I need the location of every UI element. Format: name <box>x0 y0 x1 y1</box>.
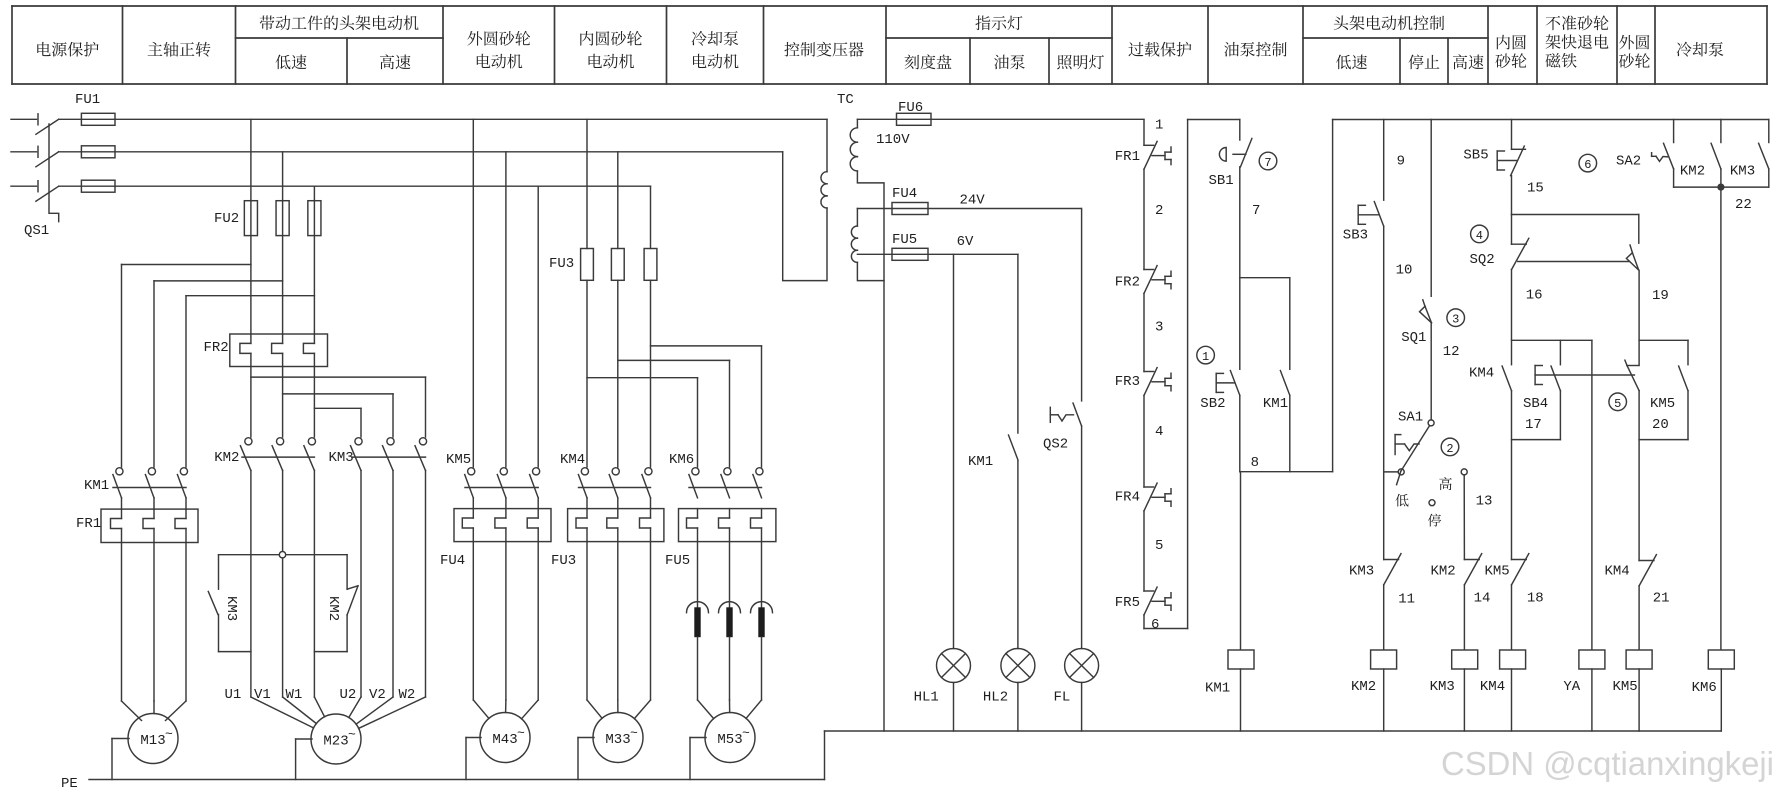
wire KM5 taps <box>473 119 538 467</box>
fuse FU6 <box>897 113 932 125</box>
node wire 4 <box>1155 424 1163 440</box>
svg-text:16: 16 <box>1526 288 1543 304</box>
label FU4c <box>892 186 917 202</box>
node wire 10 label <box>1396 263 1413 279</box>
wire KM1 aux branch <box>1240 278 1290 370</box>
svg-text:TC: TC <box>837 92 854 108</box>
contact KM3 coolant <box>1759 120 1769 188</box>
svg-text:4: 4 <box>1476 229 1483 243</box>
svg-text:SB3: SB3 <box>1343 228 1368 244</box>
wire KM2 coil to bus <box>1383 669 1385 731</box>
contact KM5 holding <box>1639 340 1688 439</box>
node wire 12 label <box>1443 344 1460 360</box>
svg-text:HL2: HL2 <box>983 690 1008 706</box>
svg-text:KM4: KM4 <box>1480 679 1505 695</box>
svg-text:KM5: KM5 <box>1485 564 1510 580</box>
thermal contact FR5 <box>1144 587 1171 615</box>
svg-text:KM1: KM1 <box>968 454 993 470</box>
label high <box>1439 477 1452 490</box>
wire 110V line <box>857 118 1144 120</box>
contactor KM6 main contacts <box>689 468 763 498</box>
limit switch SQ2 nc <box>1512 215 1529 270</box>
fuse FU4c <box>892 203 928 215</box>
svg-text:7: 7 <box>1252 203 1260 219</box>
node wire 21 label <box>1653 591 1670 607</box>
node wire 3 <box>1155 320 1163 336</box>
label KM3 coil <box>1430 679 1455 695</box>
svg-text:KM5: KM5 <box>1650 396 1675 412</box>
svg-text:20: 20 <box>1652 417 1669 433</box>
annotation circle 4 <box>1471 225 1489 243</box>
label FR1 <box>76 516 101 532</box>
svg-text:FR3: FR3 <box>1115 374 1140 390</box>
svg-text:14: 14 <box>1474 591 1491 607</box>
label 110V <box>876 132 910 148</box>
node wire 1 <box>1155 118 1163 134</box>
wire FU2 taps <box>251 119 315 334</box>
motor M3 <box>480 713 530 763</box>
node wire 15 label <box>1527 181 1544 197</box>
label SA2 <box>1616 154 1641 170</box>
thermal contact FR1 <box>1144 141 1171 169</box>
lamp HL2 <box>1001 649 1035 683</box>
svg-text:KM1: KM1 <box>84 478 109 494</box>
contactor KM1 main contacts <box>113 468 188 498</box>
transformer TC primary <box>783 119 827 280</box>
svg-text:SB2: SB2 <box>1200 396 1225 412</box>
label KM5 <box>446 452 471 468</box>
pushbutton SB3 <box>1358 202 1384 227</box>
svg-text:1: 1 <box>1202 350 1209 364</box>
wire 24V line <box>857 208 1081 210</box>
svg-text:10: 10 <box>1396 263 1413 279</box>
svg-text:V1: V1 <box>254 687 271 703</box>
label FU4 <box>440 553 465 569</box>
svg-text:HL1: HL1 <box>914 690 939 706</box>
svg-text:FR1: FR1 <box>76 516 101 532</box>
wire 9 <box>1383 120 1385 201</box>
svg-text:FR2: FR2 <box>1115 275 1140 291</box>
svg-text:KM3: KM3 <box>329 450 354 466</box>
annotation circle 7 <box>1259 152 1277 170</box>
node wire 19 label <box>1652 288 1669 304</box>
limit switch SQ2 no <box>1626 215 1638 271</box>
svg-text:6V: 6V <box>957 234 974 250</box>
wire KM1 coil lead <box>1240 472 1242 650</box>
svg-text:KM3: KM3 <box>223 596 239 621</box>
coil KM2 <box>1371 650 1397 669</box>
svg-text:FU5: FU5 <box>665 553 690 569</box>
wire L1 bus <box>115 118 827 120</box>
label FR3 <box>1115 374 1140 390</box>
svg-text:CSDN @cqtianxingkeji: CSDN @cqtianxingkeji <box>1441 745 1774 782</box>
svg-text:U2: U2 <box>340 687 357 703</box>
fuse FU1 <box>59 113 115 192</box>
motor M5 <box>705 713 755 763</box>
wire PE stub <box>296 739 312 780</box>
label KM6 <box>669 452 694 468</box>
node wire 5 <box>1155 538 1163 554</box>
label 24V <box>960 193 986 209</box>
node wire 7 <box>1252 203 1260 219</box>
contact KM4 interlock <box>1639 555 1656 586</box>
svg-text:QS2: QS2 <box>1043 437 1068 453</box>
label KM4 <box>560 452 585 468</box>
wire lamp bottoms <box>954 683 1082 732</box>
coil KM6 <box>1708 650 1734 669</box>
contact KM4 holding <box>1502 366 1511 391</box>
wire PE stub <box>578 738 594 780</box>
label SB4 <box>1523 396 1548 412</box>
wire KM5 coil to bus <box>1638 669 1640 731</box>
contact KM3 interlock <box>1384 554 1401 585</box>
svg-text:FU3: FU3 <box>551 553 576 569</box>
node wire 14 label <box>1474 591 1491 607</box>
svg-text:KM2: KM2 <box>1351 679 1376 695</box>
svg-text:~: ~ <box>165 727 173 742</box>
wire 20 <box>1638 391 1640 561</box>
label KM3 interlock <box>1349 564 1374 580</box>
wire 13 <box>1463 475 1465 560</box>
svg-text:SB1: SB1 <box>1209 173 1234 189</box>
svg-text:M23: M23 <box>323 734 348 750</box>
motor M2 <box>311 714 361 764</box>
wire SQ2 link <box>1518 261 1630 263</box>
svg-text:KM4: KM4 <box>1605 564 1630 580</box>
svg-text:YA: YA <box>1563 679 1580 695</box>
heater elements M5 <box>687 542 773 719</box>
svg-text:KM2: KM2 <box>1680 164 1705 180</box>
label SQ2 <box>1470 252 1495 268</box>
fuse FU5c <box>892 248 928 260</box>
svg-text:SA1: SA1 <box>1398 410 1423 426</box>
switch QS2 <box>1050 403 1081 426</box>
svg-text:12: 12 <box>1443 344 1460 360</box>
disconnect switch QS1 <box>11 114 59 222</box>
svg-text:SA2: SA2 <box>1616 154 1641 170</box>
svg-text:W1: W1 <box>286 687 303 703</box>
svg-text:FR1: FR1 <box>1115 149 1140 165</box>
annotation circle 1 <box>1197 346 1215 364</box>
label PE <box>61 776 78 792</box>
wire star bridge <box>219 552 348 558</box>
label KM3 vertical <box>223 596 239 621</box>
contactor KM4 main contacts <box>578 468 652 498</box>
wire KM2 KM3 branches <box>251 367 426 438</box>
svg-text:SQ1: SQ1 <box>1401 330 1426 346</box>
label FU5b <box>665 553 690 569</box>
contact KM1 aux <box>1280 371 1289 396</box>
motor M4 <box>593 713 643 763</box>
svg-text:6: 6 <box>1151 617 1159 633</box>
wire M3 motor leads <box>473 498 538 719</box>
thermal relay FR1 <box>101 509 198 542</box>
wire 16 <box>1512 270 1592 365</box>
wire 12 rail top <box>1430 120 1432 297</box>
svg-text:M43: M43 <box>492 732 517 748</box>
svg-text:KM1: KM1 <box>1263 396 1288 412</box>
contactor KM2 delta contact <box>314 555 358 652</box>
wire L3 bus <box>115 185 651 187</box>
label KM1 coil <box>1205 681 1230 697</box>
table header text <box>37 15 1723 69</box>
label FR4 <box>1115 490 1140 506</box>
svg-text:KM5: KM5 <box>1613 679 1638 695</box>
label SB3 <box>1343 228 1368 244</box>
node wire 16 label <box>1526 288 1543 304</box>
svg-text:3: 3 <box>1452 313 1459 327</box>
wire SB1 to SB2 <box>1239 167 1241 369</box>
svg-text:V2: V2 <box>369 687 386 703</box>
wire 17 <box>1511 391 1513 560</box>
wire bus segment 2 <box>1188 120 1240 629</box>
label SB5 <box>1463 148 1488 164</box>
label KM5 holding <box>1650 396 1675 412</box>
svg-text:QS1: QS1 <box>24 223 49 239</box>
label KM5 interlock <box>1485 564 1510 580</box>
svg-text:5: 5 <box>1155 538 1163 554</box>
svg-text:21: 21 <box>1653 591 1670 607</box>
wire 15 rail top <box>1511 120 1513 150</box>
transformer TC secondary 110V <box>850 119 884 731</box>
wire 15 <box>1512 176 1639 215</box>
label TC <box>837 92 854 108</box>
svg-text:FU3: FU3 <box>549 256 574 272</box>
svg-text:~: ~ <box>742 726 750 741</box>
fuse box FU5b <box>679 509 776 542</box>
contact KM2 coolant <box>1711 120 1721 188</box>
node wire 11 label <box>1398 592 1415 608</box>
wire 12 <box>1430 323 1432 420</box>
label KM5 coil <box>1613 679 1638 695</box>
watermark <box>1441 745 1774 782</box>
wire M4 motor leads <box>587 498 651 719</box>
label KM1 aux <box>1263 396 1288 412</box>
svg-text:110V: 110V <box>876 132 910 148</box>
node wire 18 label <box>1527 591 1544 607</box>
wire bus segment 3 <box>1333 120 1769 472</box>
label QS1 <box>24 223 49 239</box>
fuse FU2 <box>244 201 321 236</box>
svg-text:M13: M13 <box>140 733 165 749</box>
svg-text:4: 4 <box>1155 424 1163 440</box>
svg-text:11: 11 <box>1398 592 1415 608</box>
annotation circle 2 <box>1441 438 1459 456</box>
wire M1 motor leads <box>122 498 187 721</box>
fuse box FU3b <box>568 509 664 542</box>
wire FL branch <box>1081 209 1083 649</box>
lamp FL <box>1065 649 1099 683</box>
label QS2 <box>1043 437 1068 453</box>
coil KM3 <box>1452 650 1478 669</box>
svg-text:U1: U1 <box>225 687 242 703</box>
limit switch SQ1 <box>1420 300 1432 323</box>
label FU5c <box>892 232 917 248</box>
lamp HL1 <box>937 649 971 683</box>
wire M2 motor leads <box>251 471 426 729</box>
node wire 2 <box>1155 203 1163 219</box>
node wire 13 label <box>1476 494 1493 510</box>
wire KM5 coil lead <box>1638 586 1640 650</box>
label KM2 vertical <box>325 596 341 621</box>
label FU3 <box>549 256 574 272</box>
coil YA <box>1579 650 1605 669</box>
wire KM4 coil to bus <box>1511 669 1513 731</box>
svg-text:FU1: FU1 <box>75 92 100 108</box>
svg-text:~: ~ <box>630 726 638 741</box>
label FR1 <box>1115 149 1140 165</box>
wire L2 bus <box>115 151 783 153</box>
contact KM1 aux lamp <box>1009 435 1018 460</box>
svg-text:2: 2 <box>1446 442 1453 456</box>
label KM1 lamp <box>968 454 993 470</box>
contact KM2 interlock <box>1464 554 1481 585</box>
node wire 9 label <box>1397 154 1405 170</box>
annotation circle 6 <box>1579 154 1597 172</box>
svg-text:22: 22 <box>1735 197 1752 213</box>
svg-text:2: 2 <box>1155 203 1163 219</box>
wire 19 <box>1639 270 1688 364</box>
wire KM1 coil to bus <box>1240 669 1242 731</box>
thermal contact FR3 <box>1144 368 1171 396</box>
svg-text:FU5: FU5 <box>892 232 917 248</box>
svg-text:KM6: KM6 <box>1692 680 1717 696</box>
contactor KM3 star contact <box>208 555 251 652</box>
label FR2 <box>204 340 229 356</box>
label SQ1 <box>1401 330 1426 346</box>
svg-text:15: 15 <box>1527 181 1544 197</box>
label SB1 <box>1209 173 1234 189</box>
label KM6 coil <box>1692 680 1717 696</box>
label low <box>1395 494 1408 507</box>
label KM2 coil <box>1351 679 1376 695</box>
node wire 17 label <box>1525 417 1542 433</box>
annotation circle 5 <box>1609 393 1627 411</box>
node wire 6 <box>1151 617 1159 633</box>
svg-text:KM4: KM4 <box>560 452 585 468</box>
label 6V <box>957 234 974 250</box>
svg-text:KM2: KM2 <box>214 450 239 466</box>
wire 6V line <box>857 253 1018 255</box>
label FL <box>1054 690 1071 706</box>
svg-text:6: 6 <box>1584 158 1591 172</box>
svg-text:FU4: FU4 <box>892 186 917 202</box>
pushbutton SB1 <box>1219 120 1252 167</box>
svg-text:W2: W2 <box>399 687 416 703</box>
thermal contact FR2 <box>1144 266 1171 294</box>
label FU2 <box>214 211 239 227</box>
label KM4 coil <box>1480 679 1505 695</box>
wire HL1 branch <box>953 254 955 648</box>
wire KM4 taps <box>587 280 651 467</box>
svg-text:FU6: FU6 <box>898 100 923 116</box>
wire 22 <box>1674 184 1769 651</box>
label SA1 <box>1398 410 1423 426</box>
svg-text:FR5: FR5 <box>1115 595 1140 611</box>
svg-text:5: 5 <box>1614 397 1621 411</box>
contactor KM5 main contacts <box>465 468 540 498</box>
wire KM3 coil lead <box>1463 585 1465 650</box>
svg-text:SB5: SB5 <box>1463 148 1488 164</box>
svg-text:1: 1 <box>1155 118 1163 134</box>
transformer TC secondary 24V 6V <box>851 209 884 281</box>
label FU1 <box>75 92 100 108</box>
svg-text:FL: FL <box>1054 690 1071 706</box>
wire low link <box>1384 471 1399 473</box>
pushbutton SB5 <box>1497 146 1525 176</box>
label FU6 <box>898 100 923 116</box>
wire KM4 coil lead <box>1511 585 1513 650</box>
svg-text:PE: PE <box>61 776 78 792</box>
svg-text:FR4: FR4 <box>1115 490 1140 506</box>
selector switch SA1 <box>1395 420 1467 506</box>
wire 10 <box>1383 226 1385 559</box>
label FR2 <box>1115 275 1140 291</box>
svg-text:~: ~ <box>517 726 525 741</box>
label stop <box>1428 514 1441 527</box>
svg-text:13: 13 <box>1476 494 1493 510</box>
node wire 22 label <box>1735 197 1752 213</box>
pushbutton SB4 <box>1512 340 1635 439</box>
wire YA lead <box>1591 340 1593 650</box>
coil KM5 <box>1626 650 1652 669</box>
label KM4 holding <box>1469 366 1494 382</box>
svg-text:KM3: KM3 <box>1349 564 1374 580</box>
label KM3 <box>329 450 354 466</box>
wire PE stub <box>112 739 129 780</box>
wire KM6 taps <box>587 346 762 467</box>
svg-text:KM1: KM1 <box>1205 681 1230 697</box>
annotation circle 3 <box>1447 309 1465 327</box>
svg-text:KM3: KM3 <box>1430 679 1455 695</box>
wire KM2 coil lead <box>1383 585 1385 650</box>
contactor KM3 main contacts <box>351 438 427 471</box>
contactor KM2 main contacts <box>240 438 315 471</box>
thermal relay FR2 <box>230 334 328 367</box>
wire 8 <box>1240 395 1333 471</box>
svg-text:SB4: SB4 <box>1523 396 1548 412</box>
svg-text:KM2: KM2 <box>1431 564 1456 580</box>
thermal contact FR4 <box>1144 483 1171 511</box>
wire FU3 taps <box>587 119 651 248</box>
label KM2 interlock <box>1431 564 1456 580</box>
wire control return bus <box>825 731 1722 780</box>
svg-text:17: 17 <box>1525 417 1542 433</box>
wire to KM1 poles <box>122 265 315 468</box>
label YA coil <box>1563 679 1580 695</box>
svg-text:FR2: FR2 <box>204 340 229 356</box>
svg-text:19: 19 <box>1652 288 1669 304</box>
table header grid <box>12 6 1767 84</box>
label HL2 <box>983 690 1008 706</box>
fuse box FU4 <box>454 509 551 542</box>
contact SB4 nc <box>1625 360 1639 391</box>
svg-text:18: 18 <box>1527 591 1544 607</box>
ground bus PE <box>89 779 825 781</box>
svg-text:FU4: FU4 <box>440 553 465 569</box>
wire KM3 coil to bus <box>1463 669 1465 731</box>
wire KM6 coil to bus <box>1720 669 1722 731</box>
wire PE stub <box>466 738 481 780</box>
label KM2 <box>214 450 239 466</box>
svg-text:M53: M53 <box>717 732 742 748</box>
svg-text:9: 9 <box>1397 154 1405 170</box>
label KM1 <box>84 478 109 494</box>
wire YA coil to bus <box>1591 669 1593 731</box>
svg-text:M33: M33 <box>605 732 630 748</box>
coil KM1 <box>1228 650 1254 669</box>
wire HL2 branch <box>1017 254 1019 648</box>
